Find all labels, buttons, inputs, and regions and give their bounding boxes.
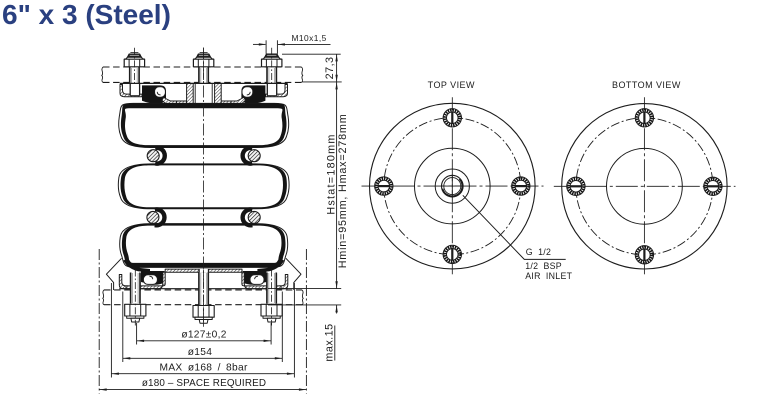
bellows convolution 2 xyxy=(118,164,289,209)
label Hmin Hmax xyxy=(337,113,349,268)
svg-text:ø180 – SPACE REQUIRED: ø180 – SPACE REQUIRED xyxy=(142,378,266,389)
bellows convolution 3 xyxy=(120,224,288,268)
top view G1/2 port xyxy=(442,175,464,197)
dimension ø127±0,2 xyxy=(137,323,272,345)
centre strip hatched xyxy=(165,269,242,272)
rubber bead (black) right pocket xyxy=(241,85,265,103)
label Hstat=180mm xyxy=(326,133,338,214)
flange bolt TV-W xyxy=(375,177,393,195)
bolt clearance B6 xyxy=(267,274,276,289)
left end curl of bottom plate xyxy=(119,275,128,289)
top stud bolt B2 xyxy=(193,48,214,99)
flange bolt BV-E xyxy=(704,177,722,195)
bellows convolution 1 xyxy=(119,103,289,147)
bellows corner tuck right xyxy=(257,259,284,273)
flange bolt TV-S xyxy=(443,245,461,263)
lower mounting plate (dashed) xyxy=(103,290,304,305)
air inlet leader line xyxy=(463,195,566,259)
bolt clearance B4 xyxy=(131,274,140,289)
right corner break line xyxy=(286,258,301,290)
plate bottom surface line xyxy=(119,288,287,290)
bolt clearance B1 xyxy=(130,84,139,96)
dimension ø154 xyxy=(123,292,282,363)
svg-text:BOTTOM VIEW: BOTTOM VIEW xyxy=(612,80,681,90)
top stud bolt B3 xyxy=(261,40,282,98)
bottom view centre circle xyxy=(607,148,683,224)
plate curl hook bottom-right xyxy=(250,275,264,285)
svg-text:TOP VIEW: TOP VIEW xyxy=(428,80,475,90)
svg-text:1/2 BSP: 1/2 BSP xyxy=(525,261,562,271)
top stud bolt B1 xyxy=(124,48,145,99)
girdle ring G1 xyxy=(147,150,159,162)
svg-text:Hmin=95mm, Hmax=278mm: Hmin=95mm, Hmax=278mm xyxy=(337,113,349,268)
centre web hatched band xyxy=(177,101,187,104)
flange bolt TV-N xyxy=(443,109,461,127)
plate curl hook in right pocket xyxy=(242,87,253,97)
svg-text:27,3: 27,3 xyxy=(324,56,336,79)
wall wrap at ring G1 xyxy=(155,148,165,164)
svg-text:Hstat=180mm: Hstat=180mm xyxy=(326,133,338,214)
bottom bead plate xyxy=(119,259,287,289)
svg-text:ø127±0,2: ø127±0,2 xyxy=(181,329,226,340)
flange bolt BV-W xyxy=(567,177,585,195)
girdle ring G4 xyxy=(248,211,260,223)
top view boss circle xyxy=(435,169,469,203)
girdle ring G3 xyxy=(147,211,159,223)
flange bolt BV-N xyxy=(635,109,653,127)
svg-text:MAX ø168 / 8bar: MAX ø168 / 8bar xyxy=(160,362,248,373)
plate top surface line xyxy=(120,82,288,84)
dimension 27,3 xyxy=(282,54,342,82)
top view middle circle xyxy=(415,148,491,224)
plate curl hook bottom-left xyxy=(143,275,157,285)
bolt clearance B3 xyxy=(267,84,276,96)
right end curl of top plate xyxy=(266,85,288,97)
bottom pocket floor band left xyxy=(126,272,165,289)
wall wrap at ring G2 xyxy=(243,148,253,164)
bottom view bolt circle (dash-dot) xyxy=(576,118,713,255)
centre boss hatched walls xyxy=(187,83,194,103)
dimension max.15 xyxy=(268,289,341,361)
svg-text:M10x1,5: M10x1,5 xyxy=(292,33,327,43)
left end curl of top plate xyxy=(120,85,142,97)
top view bolt circle (dash-dot) xyxy=(384,118,521,255)
rubber bead (black) bottom right pocket xyxy=(243,271,267,285)
bottom stud bolt B4 xyxy=(125,270,146,326)
svg-text:max.15: max.15 xyxy=(324,323,336,361)
dimension Hstat / Hmin vertical line xyxy=(336,82,338,289)
top view crosshair xyxy=(362,97,544,275)
upper mounting plate (dashed) xyxy=(102,67,303,82)
girdle ring G2 xyxy=(248,150,260,162)
left corner break line xyxy=(106,258,121,290)
right end curl of bottom plate xyxy=(279,275,288,289)
flange bolt BV-S xyxy=(635,246,653,264)
svg-text:ø154: ø154 xyxy=(188,347,212,358)
bottom stud bolt B5 xyxy=(193,270,214,327)
wall wrap at ring G3 xyxy=(155,210,165,226)
top view outer circle xyxy=(370,103,536,269)
M10x1,5 thread callout xyxy=(253,43,331,45)
rubber bead (black) bottom left pocket xyxy=(141,271,165,285)
bottom stud bolt B6 xyxy=(261,270,282,326)
flange bolt TV-E xyxy=(512,177,530,195)
bellows corner tuck left xyxy=(123,259,150,273)
dimension MAX ø168 / 8bar xyxy=(111,283,294,378)
bottom pocket floor band right xyxy=(242,272,281,289)
left view vertical centreline xyxy=(203,48,205,323)
label max.15 xyxy=(324,323,336,361)
rubber bead (black) left pocket xyxy=(142,85,166,103)
plate curl hook in left pocket xyxy=(155,87,166,97)
svg-text:AIR INLET: AIR INLET xyxy=(525,271,572,281)
sloped web left xyxy=(162,97,177,104)
bottom view crosshair xyxy=(554,97,736,275)
sloped web right xyxy=(231,97,246,104)
bottom view outer circle xyxy=(562,104,727,269)
svg-text:G 1/2: G 1/2 xyxy=(526,247,551,257)
wall wrap at ring G4 xyxy=(243,210,253,226)
dimension ø180 space required xyxy=(99,249,306,394)
bolt clearance B5 xyxy=(199,269,208,272)
top bead plate xyxy=(120,83,288,104)
